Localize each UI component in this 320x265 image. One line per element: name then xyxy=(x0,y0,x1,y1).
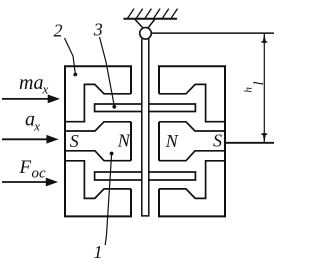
svg-text:3: 3 xyxy=(93,20,103,40)
svg-text:ц: ц xyxy=(244,87,256,93)
svg-text:x: x xyxy=(42,82,49,97)
svg-text:S: S xyxy=(213,131,222,151)
svg-text:S: S xyxy=(70,131,79,151)
svg-text:N: N xyxy=(117,130,131,150)
svg-text:1: 1 xyxy=(94,242,103,262)
svg-text:x: x xyxy=(33,119,40,134)
svg-text:ma: ma xyxy=(19,72,43,94)
svg-text:l: l xyxy=(250,81,265,85)
svg-text:F: F xyxy=(19,157,32,178)
svg-text:N: N xyxy=(165,131,179,151)
svg-text:ос: ос xyxy=(32,166,47,182)
svg-text:2: 2 xyxy=(54,21,63,41)
